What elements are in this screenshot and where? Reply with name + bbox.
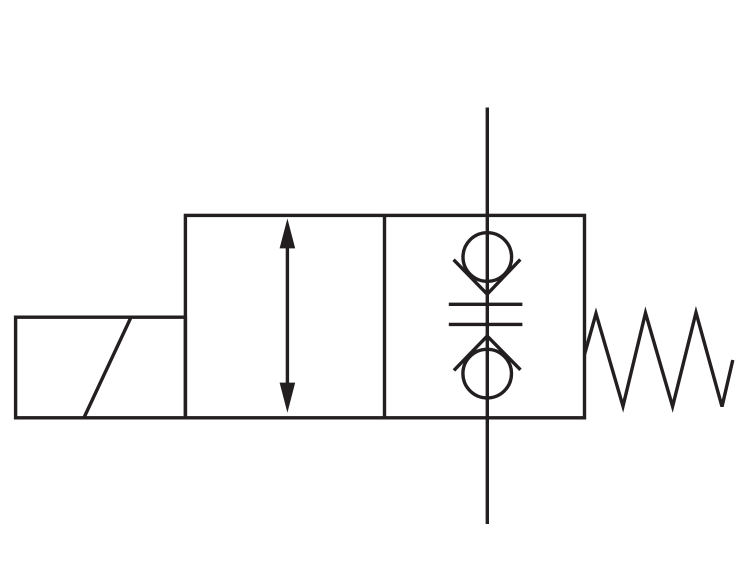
check valve ball top (circle) [463, 233, 512, 282]
valve body outline (two-position envelope) [185, 215, 584, 417]
flow arrow shaft (double-headed arrow in open position) [286, 243, 289, 388]
wire internal flow path (vertical line through right chamber) [486, 215, 489, 417]
check valve seat chevron bottom (^) [454, 336, 521, 370]
flow arrow head top [280, 219, 296, 249]
flow arrow head bottom [280, 383, 296, 413]
seat line lower [449, 323, 523, 326]
valve body divider between positions [383, 215, 386, 417]
check valve ball bottom (circle) [463, 349, 512, 398]
wire port line bottom (vertical line below valve body) [486, 418, 489, 524]
seat line upper [449, 303, 523, 306]
solenoid coil box [16, 317, 186, 418]
check valve seat chevron top (V) [454, 260, 521, 295]
solenoid coil diagonal stroke [84, 317, 131, 417]
return spring (zigzag) [585, 313, 733, 407]
wire port line top (vertical line above valve body) [486, 108, 489, 216]
